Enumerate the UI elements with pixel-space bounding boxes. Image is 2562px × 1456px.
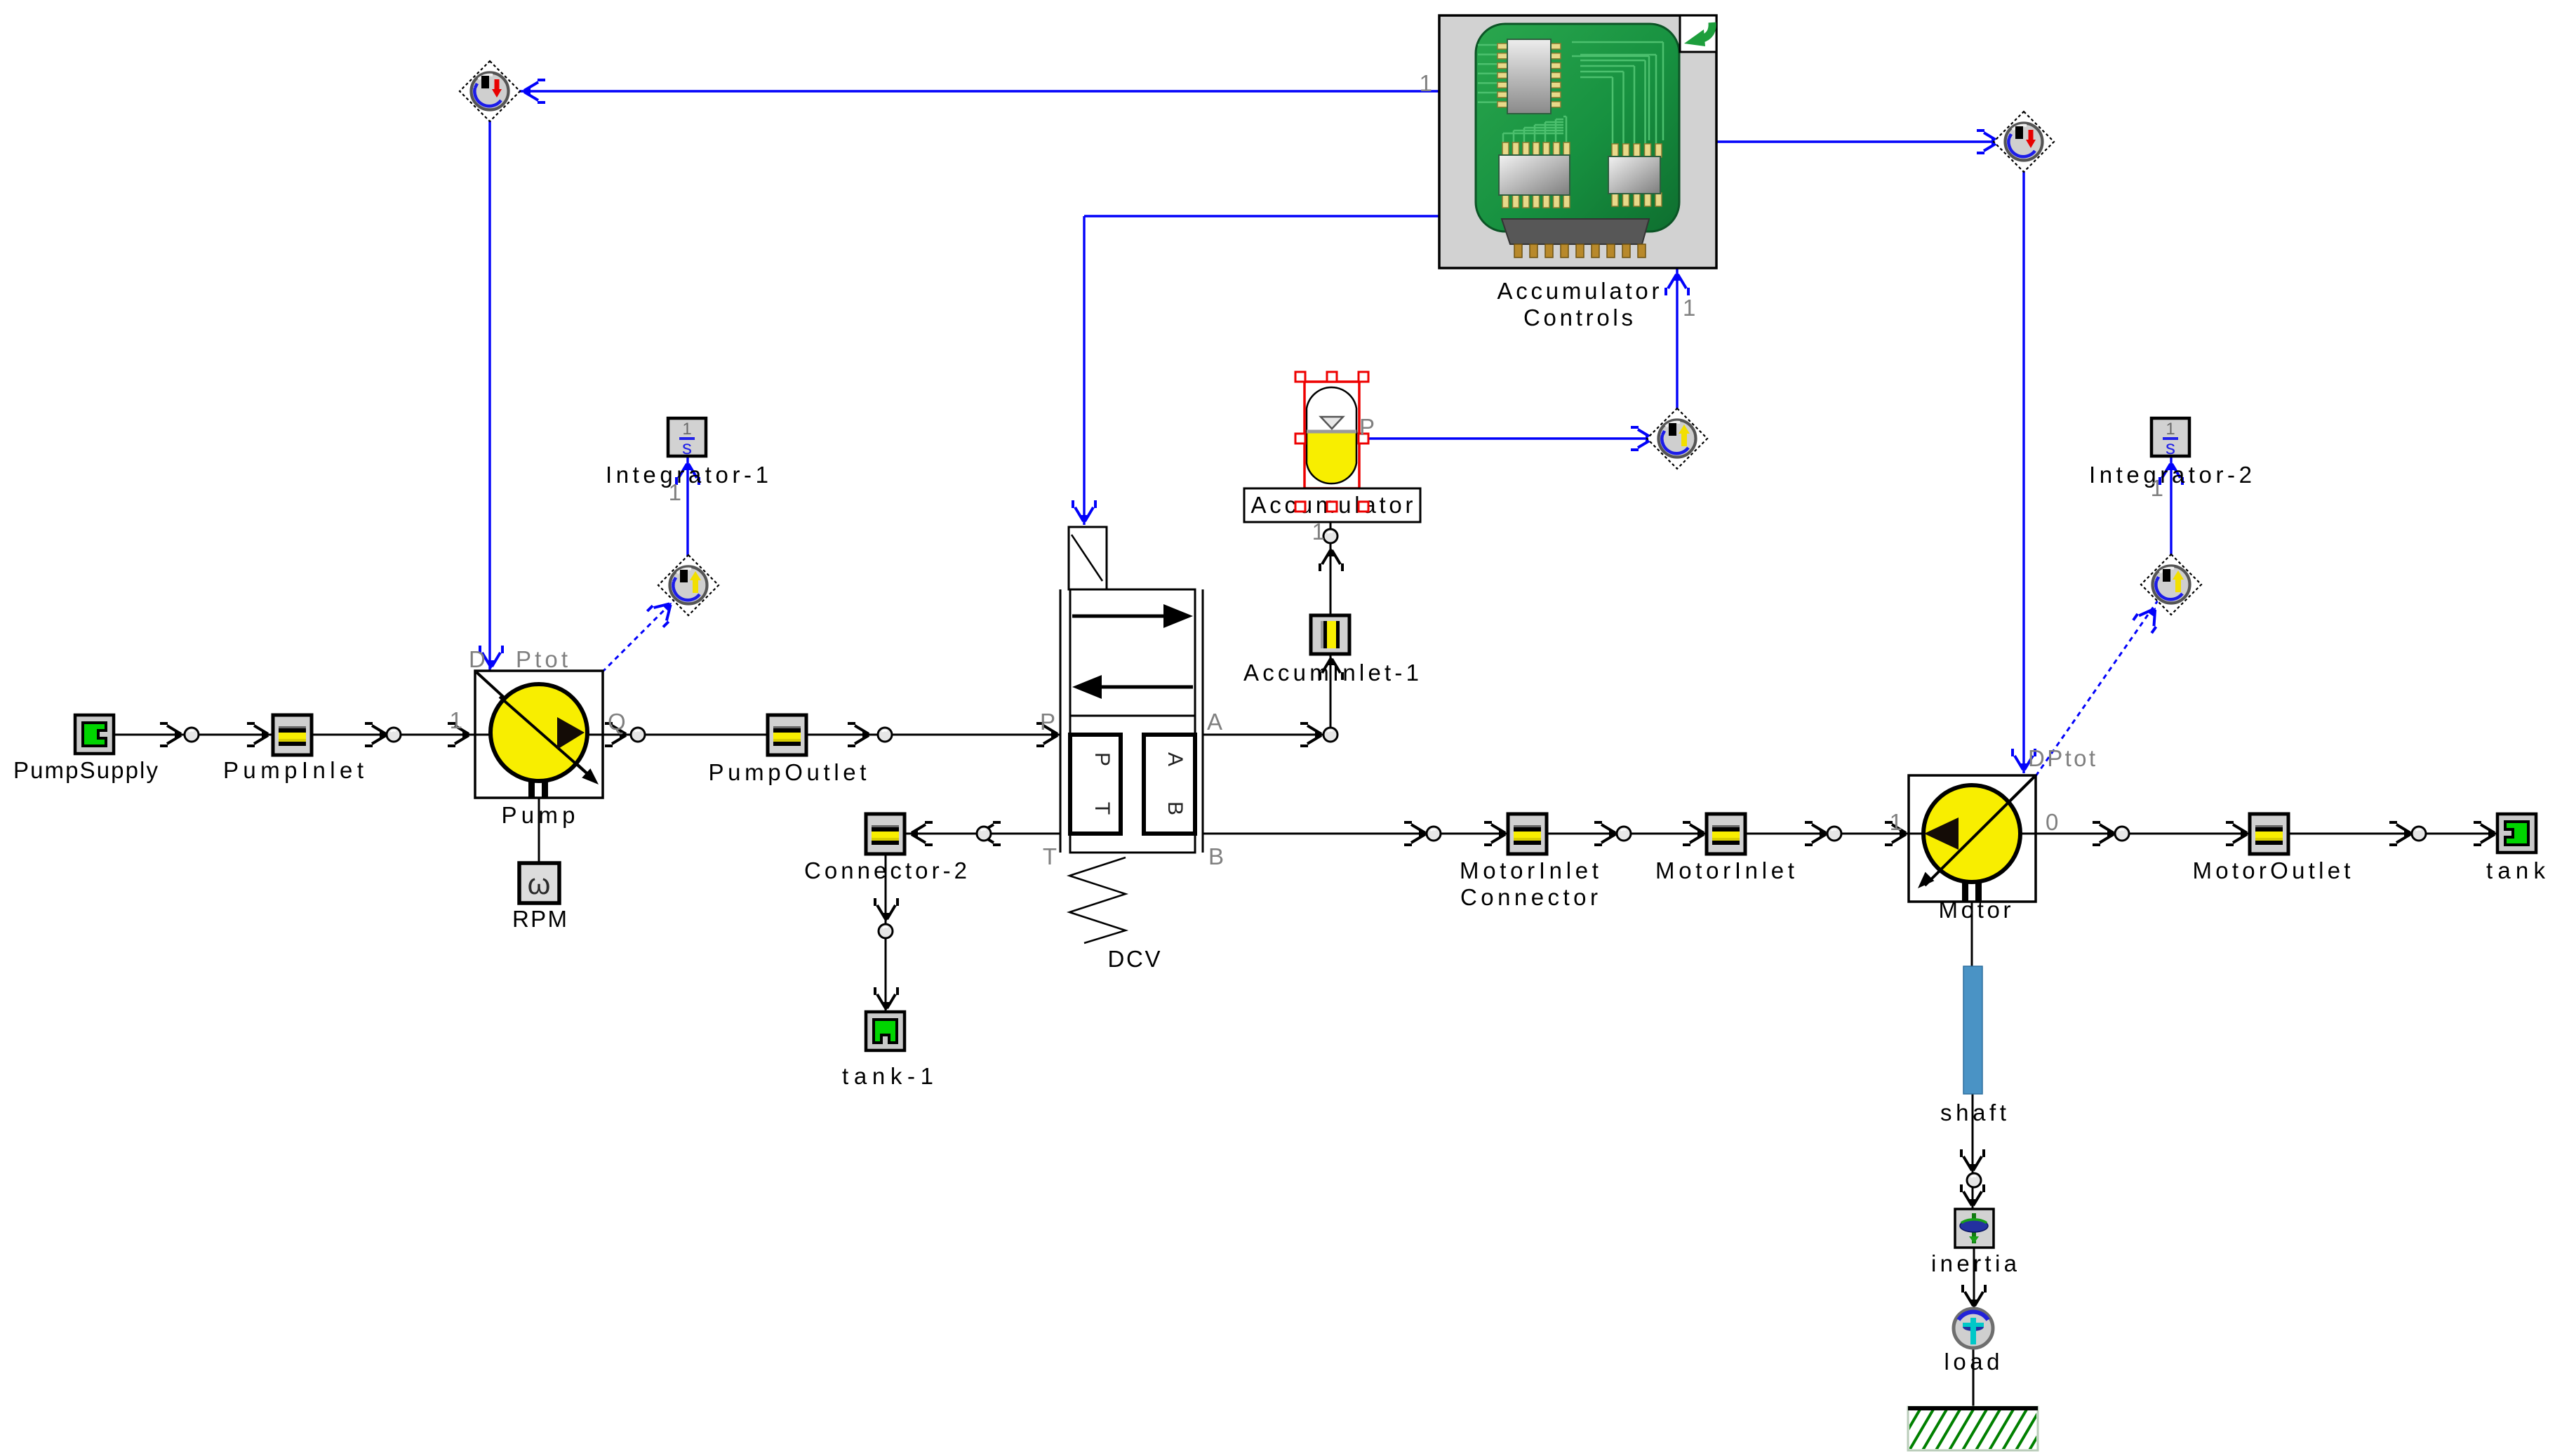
svg-text:Accumulator: Accumulator [1497, 278, 1662, 304]
svg-text:Motor: Motor [1939, 897, 2015, 923]
svg-text:DCV: DCV [1108, 946, 1163, 972]
svg-text:1: 1 [1683, 295, 1697, 321]
svg-text:tank-1: tank-1 [842, 1063, 939, 1089]
svg-text:PumpOutlet: PumpOutlet [709, 759, 871, 785]
svg-text:1: 1 [1312, 519, 1326, 545]
svg-text:PumpSupply: PumpSupply [13, 757, 159, 783]
svg-text:AccumInlet-1: AccumInlet-1 [1243, 660, 1422, 686]
svg-text:inertia: inertia [1931, 1250, 2020, 1276]
svg-text:RPM: RPM [512, 906, 568, 932]
svg-text:MotorInlet: MotorInlet [1460, 857, 1603, 883]
svg-text:1: 1 [450, 707, 464, 733]
svg-text:T: T [1043, 843, 1058, 869]
svg-text:A: A [1163, 752, 1187, 766]
svg-text:Pump: Pump [501, 802, 579, 828]
svg-text:D: D [469, 646, 487, 672]
svg-text:DPtot: DPtot [2028, 745, 2097, 771]
svg-text:B: B [1208, 843, 1225, 869]
svg-text:Controls: Controls [1523, 305, 1636, 330]
svg-text:MotorOutlet: MotorOutlet [2192, 857, 2354, 883]
svg-text:tank: tank [2486, 857, 2550, 883]
svg-text:P: P [1090, 752, 1114, 766]
svg-text:P: P [1359, 414, 1376, 440]
svg-text:Q: Q [608, 709, 627, 735]
svg-text:1: 1 [1420, 70, 1434, 96]
svg-text:Integrator-2: Integrator-2 [2089, 462, 2256, 488]
svg-text:MotorInlet: MotorInlet [1655, 857, 1799, 883]
svg-text:Connector-2: Connector-2 [804, 857, 970, 883]
svg-text:Connector: Connector [1460, 884, 1601, 910]
svg-text:T: T [1090, 802, 1114, 815]
svg-text:shaft: shaft [1940, 1100, 2010, 1126]
svg-text:1: 1 [1890, 809, 1904, 835]
svg-text:1: 1 [2166, 420, 2175, 439]
svg-text:A: A [1207, 709, 1224, 735]
svg-text:0: 0 [2046, 809, 2060, 835]
svg-text:PumpInlet: PumpInlet [223, 757, 368, 783]
svg-text:B: B [1163, 801, 1187, 815]
svg-text:s: s [682, 436, 692, 458]
svg-text:Integrator-1: Integrator-1 [606, 462, 773, 488]
svg-text:1: 1 [2151, 475, 2165, 501]
svg-text:load: load [1944, 1349, 2004, 1375]
svg-text:ω: ω [528, 867, 551, 900]
svg-text:1: 1 [682, 420, 691, 439]
svg-text:s: s [2166, 436, 2175, 458]
svg-text:P: P [1040, 709, 1057, 735]
svg-text:Ptot: Ptot [516, 646, 571, 672]
svg-text:1: 1 [669, 479, 683, 505]
